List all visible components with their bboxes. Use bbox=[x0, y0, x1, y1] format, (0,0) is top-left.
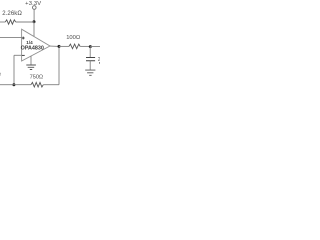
node D junction dot bbox=[89, 45, 92, 48]
svg-text:2.26kΩ: 2.26kΩ bbox=[2, 11, 22, 17]
wire inverting input horizontal bbox=[14, 54, 22, 56]
wire from node A down to op-amp V+ pin bbox=[33, 22, 35, 37]
wire capacitor to ground bbox=[89, 61, 91, 70]
op-amp minus input sign bbox=[22, 54, 25, 56]
svg-text:0Ω: 0Ω bbox=[0, 72, 1, 78]
supply terminal circle bbox=[33, 6, 37, 10]
wire op-amp output to node C bbox=[50, 45, 59, 47]
wire from R1 to node A bbox=[16, 21, 34, 23]
op-amp plus input sign bbox=[22, 37, 25, 40]
wire node D to right edge bbox=[90, 45, 100, 47]
ground below op-amp bars bbox=[26, 65, 36, 70]
svg-text:2: 2 bbox=[98, 57, 100, 63]
node A junction dot bbox=[33, 20, 36, 23]
op-amp U1 triangle bbox=[22, 29, 50, 61]
ground below capacitor bars bbox=[85, 70, 95, 75]
wire noninverting input from left edge bbox=[0, 36, 22, 38]
svg-text:100Ω: 100Ω bbox=[66, 35, 81, 41]
wire from supply circle down to node A bbox=[33, 9, 35, 21]
feedback wire vertical up to output node bbox=[58, 46, 60, 84]
wire node C to resistor R3 bbox=[59, 45, 69, 47]
capacitor C1 plates bbox=[86, 58, 95, 61]
resistor R3 100 zigzag bbox=[69, 44, 80, 49]
resistor R2 750 zigzag bbox=[31, 82, 43, 87]
ground below op-amp stub bbox=[30, 56, 32, 65]
wire from R2 to feedback corner bbox=[43, 84, 59, 86]
wire bottom rail from left edge to node B bbox=[0, 84, 14, 86]
node B junction dot bbox=[12, 83, 15, 86]
svg-text:OPA4830: OPA4830 bbox=[21, 46, 44, 52]
wire node D down to capacitor C1 bbox=[89, 47, 91, 58]
resistor R1 2.26k zigzag bbox=[5, 20, 15, 24]
wire inverting input vertical down to node B bbox=[13, 55, 15, 84]
wire from R3 to node D bbox=[80, 45, 90, 47]
svg-text:1/4: 1/4 bbox=[26, 40, 33, 45]
node C output junction dot bbox=[58, 45, 61, 48]
svg-text:750Ω: 750Ω bbox=[30, 74, 44, 80]
wire from node B to resistor R2 bbox=[14, 84, 31, 86]
wire from left edge into resistor R1 bbox=[0, 21, 5, 23]
